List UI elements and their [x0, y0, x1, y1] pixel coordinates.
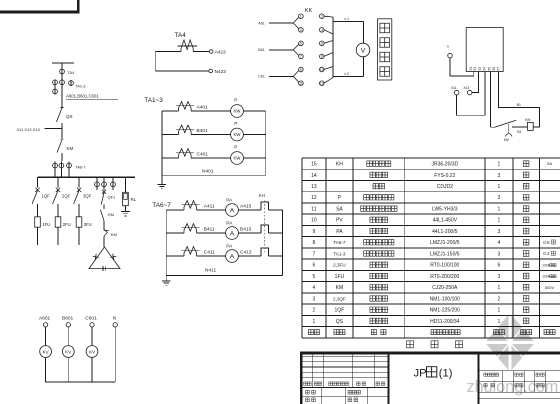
svg-text:A423: A423: [215, 50, 227, 56]
svg-text:11: 11: [299, 82, 303, 86]
svg-text:1: 1: [498, 184, 501, 190]
svg-text:B411: B411: [204, 227, 215, 233]
svg-text:1: 1: [498, 319, 501, 325]
svg-text:(1): (1): [439, 367, 453, 379]
svg-text:KM: KM: [108, 212, 114, 217]
svg-text:KM: KM: [67, 146, 74, 151]
svg-text:PA: PA: [336, 229, 343, 235]
svg-text:2: 2: [321, 15, 323, 19]
svg-text:3: 3: [498, 229, 501, 235]
svg-text:3: 3: [498, 195, 501, 201]
svg-text:3: 3: [498, 251, 501, 257]
svg-text:KW: KW: [234, 132, 242, 137]
svg-text:A: A: [230, 230, 235, 237]
svg-text:A: A: [230, 253, 235, 260]
svg-text:54: 54: [482, 67, 486, 71]
svg-text:51: 51: [469, 67, 473, 71]
svg-text:4: 4: [313, 285, 316, 291]
svg-text:1: 1: [313, 319, 316, 325]
svg-text:KW: KW: [234, 109, 242, 114]
svg-text:C413: C413: [240, 250, 252, 256]
svg-text:B601: B601: [62, 315, 74, 321]
svg-text:CDJD2: CDJD2: [437, 184, 453, 190]
svg-text:C61: C61: [258, 75, 265, 79]
svg-text:KM: KM: [525, 118, 530, 122]
svg-text:B1: B1: [517, 103, 521, 107]
svg-text:LW5-YH3/3: LW5-YH3/3: [432, 206, 458, 212]
svg-text:KV: KV: [43, 349, 49, 354]
svg-text:6: 6: [313, 263, 316, 269]
svg-text:C601: C601: [85, 315, 97, 321]
svg-text:0.5: 0.5: [543, 240, 550, 245]
svg-text:KK: KK: [305, 8, 313, 14]
svg-text:v-1: v-1: [344, 17, 349, 21]
svg-text:N411: N411: [205, 268, 216, 274]
svg-text:1: 1: [498, 162, 501, 168]
svg-text:2,3FU: 2,3FU: [333, 263, 346, 268]
svg-text:P: P: [234, 121, 237, 127]
svg-text:A601: A601: [39, 315, 51, 321]
svg-text:9: 9: [300, 68, 302, 72]
svg-text:100A: 100A: [542, 275, 550, 279]
svg-text:B61: B61: [258, 48, 264, 52]
svg-text:1FU: 1FU: [42, 222, 50, 227]
svg-text:LMZJ1-150/5: LMZJ1-150/5: [430, 251, 460, 257]
svg-text:11: 11: [311, 206, 316, 212]
svg-text:A413: A413: [240, 204, 252, 210]
svg-text:NM1-225/200: NM1-225/200: [430, 308, 461, 314]
svg-text:1QF: 1QF: [335, 308, 345, 314]
svg-text:HD11-200/34: HD11-200/34: [430, 319, 460, 325]
svg-text:2: 2: [498, 296, 501, 302]
svg-text:RL: RL: [131, 197, 137, 202]
svg-text:500V: 500V: [545, 285, 555, 290]
svg-text:KM: KM: [336, 285, 344, 291]
svg-text:v-2: v-2: [344, 72, 349, 76]
svg-text:2QF: 2QF: [62, 194, 71, 199]
svg-text:A401: A401: [197, 105, 209, 111]
svg-text:7: 7: [300, 55, 302, 59]
svg-text:3: 3: [498, 173, 501, 179]
svg-text:3: 3: [313, 296, 316, 302]
svg-text:4: 4: [498, 240, 501, 246]
svg-text:CJ20-250A: CJ20-250A: [432, 285, 458, 291]
svg-text:44L1-450V: 44L1-450V: [433, 218, 458, 224]
svg-text:56: 56: [492, 67, 496, 71]
svg-text:4: 4: [321, 28, 323, 32]
svg-text:B3: B3: [517, 130, 521, 134]
svg-text:7: 7: [313, 251, 316, 257]
svg-text:1QF: 1QF: [42, 194, 51, 199]
svg-text:KV: KV: [89, 349, 95, 354]
svg-text:53: 53: [478, 67, 482, 71]
svg-text:TA6~7: TA6~7: [152, 202, 171, 209]
svg-text:10: 10: [320, 68, 324, 72]
svg-text:P: P: [234, 98, 237, 104]
svg-text:5: 5: [300, 42, 302, 46]
svg-text:TA4: TA4: [68, 71, 75, 75]
svg-text:P: P: [234, 145, 237, 151]
svg-text:52: 52: [473, 67, 477, 71]
svg-text:1: 1: [498, 308, 501, 314]
svg-text:3QF: 3QF: [83, 194, 92, 199]
svg-text:12: 12: [311, 195, 317, 201]
svg-text:RT0-100/100: RT0-100/100: [430, 263, 459, 269]
svg-text:TA4: TA4: [175, 32, 187, 39]
svg-text:JP: JP: [414, 367, 427, 379]
svg-text:V: V: [361, 48, 366, 55]
svg-text:55: 55: [488, 67, 492, 71]
svg-text:A601,B601,C601: A601,B601,C601: [66, 94, 99, 99]
svg-text:TA6-7: TA6-7: [333, 240, 346, 245]
svg-text:N401: N401: [202, 168, 214, 174]
svg-text:A: A: [230, 207, 235, 214]
svg-text:1: 1: [498, 218, 501, 224]
svg-text:A411: A411: [204, 204, 215, 210]
svg-text:6: 6: [498, 263, 501, 269]
svg-text:13: 13: [311, 184, 317, 190]
svg-text:3: 3: [300, 28, 302, 32]
svg-text:QF1: QF1: [108, 195, 117, 200]
svg-text:KM: KM: [504, 138, 509, 142]
svg-text:9: 9: [313, 229, 316, 235]
svg-text:NM1-100/100: NM1-100/100: [430, 296, 461, 302]
svg-text:100A: 100A: [542, 263, 550, 267]
svg-text:57: 57: [497, 67, 501, 71]
svg-text:TA6-7: TA6-7: [75, 166, 85, 170]
svg-text:X13: X13: [463, 86, 469, 90]
svg-text:TA1-3: TA1-3: [75, 85, 85, 89]
svg-text:10: 10: [311, 218, 317, 224]
svg-text:12: 12: [320, 82, 324, 86]
svg-text:15: 15: [311, 162, 317, 168]
svg-text:X11: X11: [451, 86, 457, 90]
svg-text:KH: KH: [259, 193, 265, 198]
svg-text:KH: KH: [336, 162, 343, 168]
svg-text:1: 1: [300, 15, 302, 19]
svg-text:3FU: 3FU: [84, 222, 92, 227]
svg-text:TA1~3: TA1~3: [144, 97, 163, 104]
svg-text:2: 2: [313, 308, 316, 314]
svg-text:3: 3: [498, 274, 501, 280]
svg-text:2,3QF: 2,3QF: [333, 296, 346, 301]
svg-text:8: 8: [313, 240, 316, 246]
svg-text:PA: PA: [226, 244, 233, 250]
svg-text:KM: KM: [111, 232, 117, 237]
svg-text:8: 8: [321, 55, 323, 59]
svg-text:PA: PA: [226, 198, 233, 204]
svg-text:C401: C401: [197, 152, 209, 158]
svg-text:QS: QS: [336, 319, 344, 325]
svg-text:44L1-200/5: 44L1-200/5: [432, 229, 458, 235]
svg-text:LMZJ1-200/5: LMZJ1-200/5: [430, 240, 460, 246]
svg-text:KW: KW: [234, 156, 242, 161]
svg-text:N: N: [113, 315, 117, 321]
svg-text:1FU: 1FU: [335, 274, 345, 280]
svg-text:PA: PA: [226, 221, 233, 227]
svg-text:KV: KV: [65, 349, 71, 354]
svg-text:X11 X12 X13: X11 X12 X13: [17, 127, 41, 132]
svg-text:0.2: 0.2: [543, 251, 550, 256]
svg-text:zhulong.com: zhulong.com: [467, 378, 559, 396]
svg-text:QS: QS: [66, 114, 73, 119]
svg-text:C411: C411: [204, 250, 215, 256]
svg-text:A61: A61: [258, 21, 264, 25]
svg-text:2FU: 2FU: [63, 222, 71, 227]
svg-text:1: 1: [498, 206, 501, 212]
svg-text:6: 6: [321, 42, 323, 46]
svg-text:n: n: [447, 44, 449, 48]
svg-text:FYS-0.22: FYS-0.22: [434, 173, 455, 179]
svg-text:TA1-3: TA1-3: [333, 251, 346, 256]
svg-text:SA: SA: [336, 206, 343, 212]
svg-text:PV: PV: [336, 218, 343, 224]
svg-text:1: 1: [498, 285, 501, 291]
svg-text:JR36-20/3D: JR36-20/3D: [431, 162, 458, 168]
svg-text:14: 14: [311, 173, 317, 179]
svg-text:N423: N423: [215, 69, 227, 75]
svg-text:5: 5: [313, 274, 316, 280]
svg-text:B401: B401: [197, 128, 209, 134]
svg-text:B413: B413: [240, 227, 252, 233]
svg-text:RT0-200/200: RT0-200/200: [430, 274, 459, 280]
svg-text:5A: 5A: [547, 161, 552, 166]
